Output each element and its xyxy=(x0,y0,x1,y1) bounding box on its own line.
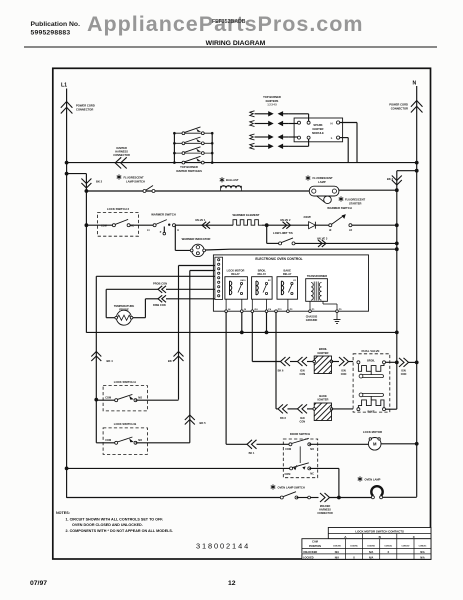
svg-text:LOCK MOTOR SWITCH CONTACTS: LOCK MOTOR SWITCH CONTACTS xyxy=(355,529,404,533)
door switch link xyxy=(299,446,301,463)
connector BK 8 xyxy=(278,404,288,413)
svg-text:LOCK MOTOR: LOCK MOTOR xyxy=(227,269,245,273)
svg-text:NO: NO xyxy=(138,439,142,442)
svg-text:H: H xyxy=(330,121,332,125)
power cord connector L1 (chevrons) xyxy=(61,102,73,114)
fluorescent starter xyxy=(324,196,332,204)
svg-text:N/A: N/A xyxy=(369,556,374,559)
svg-text:COM-NC: COM-NC xyxy=(419,546,427,548)
svg-text:CON: CON xyxy=(401,373,407,376)
svg-text:L1: L1 xyxy=(147,230,150,232)
svg-text:DUAL VALVE: DUAL VALVE xyxy=(362,349,380,353)
svg-text:MODULE: MODULE xyxy=(312,131,324,135)
svg-text:N/A: N/A xyxy=(335,551,340,554)
junction lock switch A COM xyxy=(94,398,98,402)
svg-text:COM: COM xyxy=(105,439,111,442)
svg-text:IGNITER: IGNITER xyxy=(116,146,127,150)
svg-text:2. COMPONENTS WITH * DO NOT AP: 2. COMPONENTS WITH * DO NOT APPEAR ON AL… xyxy=(66,529,173,533)
wire module L to row1 xyxy=(340,137,349,139)
svg-text:CAM: CAM xyxy=(312,541,318,544)
svg-text:UNLOCKED: UNLOCKED xyxy=(303,551,317,554)
junction J9/bus xyxy=(240,331,244,335)
connector BK 4 (chevrons up) xyxy=(91,352,101,362)
svg-text:NO: NO xyxy=(310,448,314,451)
junction rail3/warmer row xyxy=(395,223,399,227)
svg-text:NC: NC xyxy=(131,224,135,227)
svg-text:BK 3: BK 3 xyxy=(387,177,394,181)
svg-text:TOP BURNER: TOP BURNER xyxy=(263,95,281,99)
svg-text:BAKE: BAKE xyxy=(284,269,292,273)
junction rail3/broil common xyxy=(395,361,399,365)
wire igniter row1 to module pin2 xyxy=(289,113,309,115)
svg-text:DOOR SWITCH: DOOR SWITCH xyxy=(290,432,310,436)
svg-text:RELAY: RELAY xyxy=(258,272,267,276)
svg-text:CON: CON xyxy=(300,420,306,423)
schematic border frame xyxy=(53,68,431,559)
connector BK 5 (chevrons up) xyxy=(185,415,195,425)
wire oven lamp to N xyxy=(383,496,417,498)
svg-text:K410: K410 xyxy=(241,279,247,282)
wire J9 drop xyxy=(241,313,243,333)
svg-text:BK 1: BK 1 xyxy=(249,452,255,455)
svg-text:BROIL: BROIL xyxy=(367,359,375,362)
svg-text:Publication No.: Publication No. xyxy=(31,21,81,28)
header rule line xyxy=(24,46,437,48)
wire warmer indicator to rail3 xyxy=(206,248,231,251)
fluorescent lamp DS1 xyxy=(306,175,311,180)
svg-text:PROB CON: PROB CON xyxy=(153,282,167,286)
wire door switch NC to lamp row xyxy=(309,467,339,469)
svg-text:WARMER SWITCH: WARMER SWITCH xyxy=(327,206,352,210)
junction rail3/lamp row xyxy=(395,188,399,192)
junction rail2/lock switch row xyxy=(85,223,89,227)
wire branch L1 to BK2 xyxy=(67,173,87,175)
junction NC/lamp row xyxy=(337,496,341,500)
svg-text:N/A: N/A xyxy=(420,556,425,559)
svg-text:BAKE: BAKE xyxy=(367,411,374,414)
connector BK 7 (chevrons up) xyxy=(174,352,184,362)
wire L1 rail vertical xyxy=(66,89,68,498)
svg-text:1 2 3 4 5: 1 2 3 4 5 xyxy=(267,104,277,107)
wire lock motor to N xyxy=(381,443,417,445)
svg-text:DISB CON: DISB CON xyxy=(153,303,166,307)
svg-text:GROUND: GROUND xyxy=(306,318,318,322)
ballast L1 coil xyxy=(220,177,225,182)
svg-text:STARTER: STARTER xyxy=(349,201,362,205)
wire bake relay to bake row xyxy=(275,313,277,409)
svg-text:BROIL: BROIL xyxy=(258,269,266,273)
svg-text:COM-NO: COM-NO xyxy=(333,546,341,548)
junction P4/bus xyxy=(265,331,269,335)
svg-text:COM: COM xyxy=(105,397,111,400)
svg-text:TEMPERATURE: TEMPERATURE xyxy=(114,304,134,308)
wire oven lamp row xyxy=(67,497,282,499)
wire relay bus rail2 to rail3 xyxy=(86,331,396,333)
svg-text:H: H xyxy=(177,230,179,232)
molded harness connector xyxy=(320,493,330,502)
power cord connector N (chevrons) xyxy=(411,101,423,113)
oven lamp switch xyxy=(271,484,276,489)
top burner igniter switches xyxy=(173,127,213,164)
junction N/dual valve common xyxy=(415,361,419,365)
wire warmer row xyxy=(86,224,114,226)
svg-text:BK 7: BK 7 xyxy=(168,359,175,363)
svg-text:HARNESS: HARNESS xyxy=(115,150,128,154)
wire igniter row2 to module pin1 xyxy=(289,123,298,125)
dual valve bake coil xyxy=(357,408,360,411)
wire P4 drop xyxy=(266,313,268,333)
svg-text:CONNECTOR: CONNECTOR xyxy=(76,107,93,111)
wire EOC pin to lock switches COM (BK4) xyxy=(96,275,215,277)
connector BK 1 xyxy=(247,440,257,449)
svg-text:COM-NO: COM-NO xyxy=(401,546,409,548)
junction N/BK3 branch xyxy=(415,169,419,173)
igniter connector bake left xyxy=(298,404,308,413)
junction rail3/indicator wire xyxy=(395,247,399,251)
svg-text:L: L xyxy=(331,136,333,140)
svg-text:BAKE: BAKE xyxy=(319,394,327,398)
svg-text:L1: L1 xyxy=(61,83,67,89)
svg-text:OVEN DOOR CLOSED AND UNLOCKED.: OVEN DOOR CLOSED AND UNLOCKED. xyxy=(72,523,143,527)
svg-text:WARMER INDICATOR: WARMER INDICATOR xyxy=(182,237,211,241)
svg-text:CONNECTOR: CONNECTOR xyxy=(391,106,408,110)
svg-text:WARMER SWITCH: WARMER SWITCH xyxy=(151,213,176,217)
svg-text:N/A: N/A xyxy=(369,551,374,554)
svg-text:FLUORESCENT: FLUORESCENT xyxy=(313,176,334,180)
svg-text:LAMP SWITCH: LAMP SWITCH xyxy=(126,179,145,183)
svg-text:LOW LIMIT T/S: LOW LIMIT T/S xyxy=(273,231,293,235)
svg-text:OVEN LAMP: OVEN LAMP xyxy=(365,477,381,481)
svg-text:IGNITER: IGNITER xyxy=(318,351,329,355)
common connector xyxy=(399,358,409,367)
wire branch N to BK3 xyxy=(397,170,417,172)
svg-text:TOP BURNER: TOP BURNER xyxy=(180,165,198,169)
svg-text:COM-NO: COM-NO xyxy=(367,546,375,548)
wire disb con to probe xyxy=(145,298,158,300)
junction L1/row1 xyxy=(65,161,69,165)
EOC ribbon connector pins xyxy=(215,257,223,299)
svg-text:FLUORESCENT: FLUORESCENT xyxy=(124,176,145,180)
wire door switch NO to lock motor xyxy=(309,443,368,445)
wire EOC pin to lock switch B (BK5) xyxy=(190,270,215,272)
svg-text:FEF352BADB: FEF352BADB xyxy=(212,19,246,25)
svg-text:BK 5: BK 5 xyxy=(200,421,207,425)
connector BK 2 (chevrons down) xyxy=(85,174,87,333)
wire EOC pin to lock switch A (BK7) xyxy=(179,265,215,267)
svg-text:N/A: N/A xyxy=(420,551,425,554)
igniter connector broil left xyxy=(298,357,308,366)
svg-text:ELECTRONIC OVEN CONTROL: ELECTRONIC OVEN CONTROL xyxy=(255,257,302,261)
dual valve broil coil xyxy=(357,361,360,364)
svg-text:BALLAST: BALLAST xyxy=(226,178,239,182)
wire N rail vertical xyxy=(416,86,418,497)
wire module H to row1 xyxy=(340,122,357,124)
svg-text:VALVE 2: VALVE 2 xyxy=(280,218,291,222)
svg-text:BROIL: BROIL xyxy=(319,347,328,351)
svg-text:NOTES:: NOTES: xyxy=(56,511,70,515)
svg-text:BK 2: BK 2 xyxy=(96,180,103,184)
svg-text:IGNITER: IGNITER xyxy=(318,398,329,402)
relay to terminal stubs xyxy=(225,299,227,310)
wire low limit row xyxy=(266,225,268,243)
svg-text:IGNITER SWITCHES: IGNITER SWITCHES xyxy=(176,169,202,173)
wire broil relay to broil row xyxy=(251,313,253,362)
svg-text:POWER CORD: POWER CORD xyxy=(76,104,95,108)
fluorescent lamp switch S2 xyxy=(117,174,122,179)
svg-text:240VF: 240VF xyxy=(304,215,312,219)
junction rail2/lamp row xyxy=(85,189,89,193)
svg-text:1. CIRCUIT SHOWN WITH ALL CONT: 1. CIRCUIT SHOWN WITH ALL CONTROLS SET T… xyxy=(66,517,164,521)
svg-text:12: 12 xyxy=(228,580,236,587)
svg-text:LOCK MOTOR: LOCK MOTOR xyxy=(363,430,382,434)
svg-text:WIRING DIAGRAM: WIRING DIAGRAM xyxy=(206,40,266,47)
svg-text:N: N xyxy=(413,81,417,87)
svg-text:LOCKED: LOCKED xyxy=(303,556,314,559)
svg-text:RELAY: RELAY xyxy=(231,272,240,276)
connector BK 3 (chevrons down) xyxy=(396,171,398,409)
svg-text:M: M xyxy=(373,442,377,447)
junction L1/door switch row xyxy=(65,467,69,471)
svg-text:CONNECTOR: CONNECTOR xyxy=(113,153,130,157)
wire broil valve to common xyxy=(386,361,397,363)
wire J4 to door switch xyxy=(225,313,227,445)
connector BK 6 xyxy=(281,357,291,366)
svg-text:07/97: 07/97 xyxy=(30,580,47,587)
junction L1/BK2 branch xyxy=(65,172,69,176)
igniter connector (chevrons) xyxy=(115,157,127,168)
svg-text:CHASSIS: CHASSIS xyxy=(306,315,318,319)
top burner igniters (spark gaps) xyxy=(250,111,289,150)
svg-text:318002144: 318002144 xyxy=(196,542,250,551)
svg-text:LOCK SWITCH B: LOCK SWITCH B xyxy=(114,422,137,426)
wire igniter row3 to module pin3 xyxy=(289,136,298,138)
junction warmer element/low limit xyxy=(265,223,269,227)
svg-text:VALVE 1: VALVE 1 xyxy=(195,218,206,222)
svg-text:NO: NO xyxy=(138,396,142,399)
junction N/row1 xyxy=(415,161,419,165)
svg-text:IGNITERS: IGNITERS xyxy=(266,99,279,103)
lock motor switch contacts table xyxy=(302,528,431,560)
svg-text:CON: CON xyxy=(341,373,347,376)
svg-text:COM-NC: COM-NC xyxy=(350,546,358,548)
svg-text:COM: COM xyxy=(285,448,291,451)
svg-text:BK 8: BK 8 xyxy=(280,417,286,420)
svg-text:BK 6: BK 6 xyxy=(278,370,284,373)
igniter connector broil right xyxy=(339,357,349,366)
svg-text:LOCK SWITCH 2: LOCK SWITCH 2 xyxy=(107,207,130,211)
svg-text:5995298883: 5995298883 xyxy=(31,29,71,36)
svg-text:COM-NC: COM-NC xyxy=(384,546,392,548)
svg-text:FLUORESCENT: FLUORESCENT xyxy=(345,198,366,202)
svg-text:COM: COM xyxy=(285,473,291,476)
spark igniter module U1 xyxy=(294,118,343,142)
svg-text:WARMER ELEMENT: WARMER ELEMENT xyxy=(233,213,260,217)
svg-text:CONNECTOR: CONNECTOR xyxy=(317,512,333,515)
svg-text:SPARK: SPARK xyxy=(313,123,322,127)
svg-text:LO: LO xyxy=(349,230,352,232)
svg-text:COM: COM xyxy=(101,224,107,227)
svg-text:IGNITER: IGNITER xyxy=(313,127,324,131)
wire probe con to probe xyxy=(106,288,158,290)
EOC terminals xyxy=(225,308,342,312)
electronic oven control box xyxy=(213,255,368,311)
svg-text:RELAY: RELAY xyxy=(283,272,292,276)
junction N/lock motor row xyxy=(415,442,419,446)
oven lamp xyxy=(358,476,363,481)
junction rail3/lowlimit row xyxy=(395,242,399,246)
svg-text:OVEN LAMP SWITCH: OVEN LAMP SWITCH xyxy=(278,485,305,489)
junction rail3/relay bus xyxy=(395,331,399,335)
svg-text:BK 4: BK 4 xyxy=(107,359,114,363)
svg-text:NC: NC xyxy=(310,472,314,475)
svg-text:LAMP: LAMP xyxy=(318,180,326,184)
wire L1 to door switch lower xyxy=(67,467,292,469)
wire igniter row4 to module pin4 xyxy=(289,145,309,147)
svg-text:LOCK SWITCH A: LOCK SWITCH A xyxy=(114,380,136,384)
svg-text:POSITION: POSITION xyxy=(309,545,321,548)
svg-text:CON: CON xyxy=(300,373,306,376)
svg-text:TRANSFORMER: TRANSFORMER xyxy=(307,274,327,278)
wire row1 L1 to N xyxy=(67,162,417,164)
svg-text:P: P xyxy=(160,232,162,234)
wire bake valve to rail3 xyxy=(386,408,397,410)
svg-text:POWER CORD: POWER CORD xyxy=(389,103,408,107)
svg-text:N/A: N/A xyxy=(335,556,340,559)
wire fluorescent lamp row xyxy=(86,190,309,192)
svg-text:HI: HI xyxy=(329,230,332,232)
